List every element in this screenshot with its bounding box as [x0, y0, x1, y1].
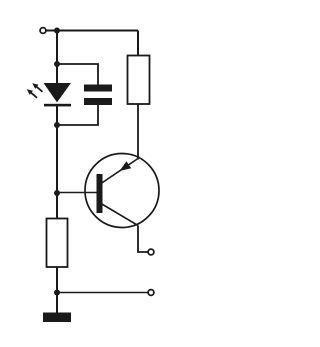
wire left vertical (top to LED anode node) — [56, 31, 58, 65]
wire left vertical (node C to base node) — [56, 125, 58, 193]
wire base node to R2 — [56, 193, 58, 219]
node D (base junction) — [54, 190, 60, 196]
wire top rail drop to R1 — [137, 31, 139, 56]
resistor R2 — [47, 219, 68, 268]
LED D1 — [27, 83, 71, 106]
transistor Q1 (PNP) — [85, 154, 159, 228]
wire R2 to ground node — [56, 267, 58, 293]
wire LED anode — [56, 64, 58, 84]
capacitor C1 — [84, 85, 112, 106]
terminal T1 (top-left input) — [40, 28, 53, 34]
terminal T2 (collector output) — [148, 249, 154, 255]
terminal T3 (bottom-right) — [148, 290, 154, 296]
ground — [43, 313, 71, 323]
wire capacitor top branch — [57, 64, 98, 86]
wire ground stub — [56, 293, 58, 314]
node E (ground junction) — [54, 290, 60, 296]
node C (LED/cap bottom junction) — [54, 122, 60, 128]
wire collector to terminal — [138, 226, 148, 253]
wire bottom rail — [57, 292, 148, 294]
wire top rail — [53, 30, 138, 32]
node A (top junction) — [54, 28, 60, 34]
wire R1 to emitter — [137, 104, 139, 160]
node B (LED/cap top junction) — [54, 61, 60, 67]
wire LED cathode — [56, 106, 58, 125]
wire capacitor bottom branch — [57, 105, 98, 126]
wire base lead — [57, 192, 97, 194]
resistor R1 — [128, 56, 150, 105]
